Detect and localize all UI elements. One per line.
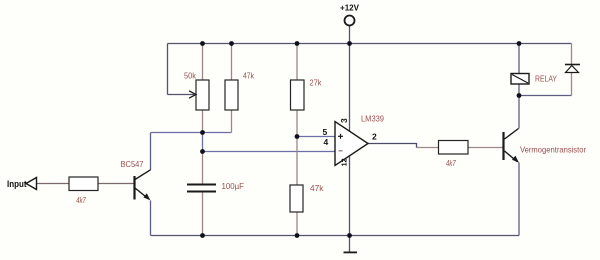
svg-text:100µF: 100µF [222, 181, 245, 191]
svg-text:BC547: BC547 [121, 159, 144, 169]
svg-text:3: 3 [339, 118, 349, 123]
svg-text:LM339: LM339 [361, 114, 384, 124]
svg-text:Vermogentransistor: Vermogentransistor [520, 145, 586, 155]
svg-text:47k: 47k [310, 183, 324, 193]
svg-text:5: 5 [323, 127, 328, 137]
svg-text:47k: 47k [243, 71, 255, 81]
svg-text:12: 12 [340, 158, 349, 166]
svg-text:4k7: 4k7 [76, 195, 86, 205]
svg-text:RELAY: RELAY [535, 74, 557, 84]
svg-text:Input: Input [7, 179, 27, 190]
svg-text:50k: 50k [184, 71, 197, 81]
svg-text:+12V: +12V [340, 3, 359, 13]
svg-text:27k: 27k [310, 78, 323, 88]
svg-text:4: 4 [324, 137, 329, 147]
svg-text:4k7: 4k7 [446, 158, 456, 168]
svg-text:2: 2 [372, 132, 377, 142]
